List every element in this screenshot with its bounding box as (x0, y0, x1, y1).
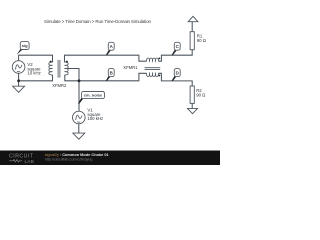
node B flag (106, 69, 114, 81)
node C flag (172, 42, 181, 55)
wire V1 stub (78, 81, 80, 112)
wire V2 ground stem (18, 81, 20, 86)
junction node at V1 top (78, 79, 81, 82)
svg-text:10 kHz: 10 kHz (27, 70, 40, 75)
transformer XFMR2 (49, 60, 68, 78)
resistor R1 (190, 32, 194, 50)
svg-text:90 Ω: 90 Ω (197, 38, 207, 43)
wire center tap (65, 69, 80, 81)
footer bar (0, 151, 220, 166)
voltage source V2 (12, 61, 25, 74)
CircuitLab logo (9, 153, 34, 163)
wire XFMR1 bottom right to R2 (158, 73, 192, 86)
wire secondary bottom rail to XFMR1 (65, 73, 147, 81)
node sig flag (17, 42, 29, 55)
flipped ground above R1 (188, 16, 198, 21)
XFMR1 phase dot top (159, 58, 161, 60)
svg-text:XFMR1: XFMR1 (123, 65, 138, 70)
svg-text:D: D (176, 71, 179, 76)
R2 value label (196, 88, 206, 98)
node D flag (172, 69, 181, 82)
wire primary top rail (19, 55, 53, 62)
junction node at V2 bottom (17, 79, 20, 82)
svg-text:Simulate > Time Domain > Run T: Simulate > Time Domain > Run Time-Domain… (44, 19, 151, 24)
svg-text:90 Ω: 90 Ω (196, 93, 206, 98)
ground under V2 (13, 86, 25, 92)
wire primary bottom rail (19, 73, 53, 81)
svg-text:XFMR2: XFMR2 (52, 83, 67, 88)
node cm_noise flag (78, 92, 105, 104)
svg-text:signal2y / Common Mode Choke 0: signal2y / Common Mode Choke 01 (45, 152, 110, 157)
V2 value label (27, 62, 41, 75)
svg-text:cm_noise: cm_noise (84, 93, 103, 98)
node A flag (106, 42, 114, 55)
wire R1 top stem (191, 22, 193, 32)
svg-text:100 kHz: 100 kHz (87, 116, 103, 121)
XFMR2 phase dot right (66, 61, 68, 63)
R1 value label (197, 33, 207, 43)
svg-text:LAB: LAB (25, 159, 35, 164)
wire R2 bottom stem (191, 103, 193, 108)
XFMR1 phase dot bottom (159, 75, 161, 77)
svg-text:sig: sig (22, 43, 28, 48)
svg-text:B: B (110, 71, 113, 76)
voltage source V1 (73, 111, 86, 124)
wire secondary top rail to XFMR1 (65, 55, 147, 62)
ground under V1 (73, 133, 85, 139)
V1 value label (87, 108, 103, 122)
XFMR2 phase dot left (50, 61, 52, 63)
svg-text:http://circuitlab.com/c/9n3yuq: http://circuitlab.com/c/9n3yuq (45, 158, 93, 162)
transformer XFMR1 common-mode choke (145, 58, 161, 76)
wire V1 ground stem (78, 124, 80, 133)
resistor R2 (190, 86, 194, 103)
wire XFMR1 top right to R1 (158, 50, 192, 62)
ground under R2 (188, 108, 198, 113)
